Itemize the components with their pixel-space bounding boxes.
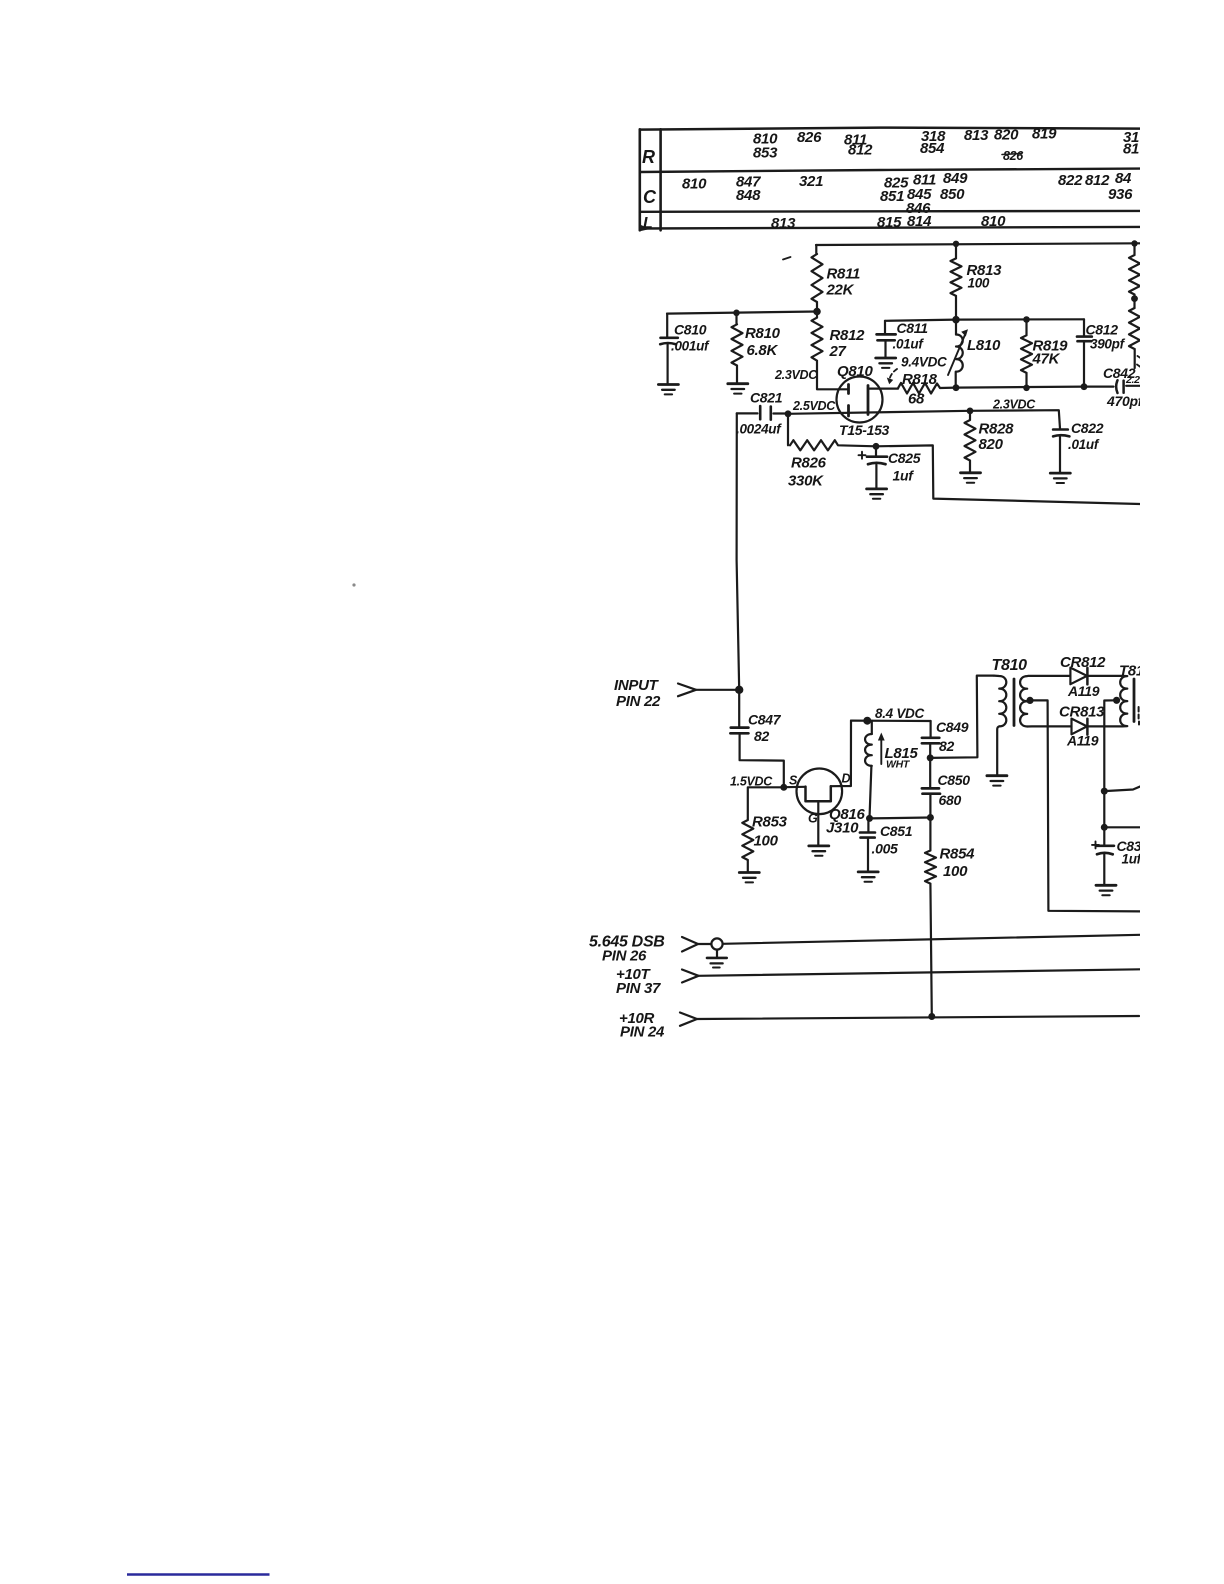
ground C825 [867, 489, 887, 499]
svg-text:22K: 22K [826, 282, 855, 299]
ground C851 [858, 872, 878, 882]
svg-text:PIN 24: PIN 24 [620, 1024, 665, 1041]
svg-text:T15-153: T15-153 [839, 422, 890, 438]
clipped marks right edge [1137, 356, 1141, 367]
svg-text:47K: 47K [1032, 351, 1061, 368]
svg-text:2.3VDC: 2.3VDC [774, 368, 818, 382]
svg-text:813: 813 [964, 127, 989, 144]
svg-text:R818: R818 [902, 371, 938, 388]
svg-text:936: 936 [1108, 186, 1133, 203]
svg-text:C847: C847 [748, 712, 782, 728]
svg-text:853: 853 [753, 145, 778, 162]
resistor R819 [1021, 320, 1068, 388]
node tank-bottom C812/C842 [1081, 383, 1088, 390]
node input/C847 [735, 686, 743, 694]
svg-text:G: G [808, 812, 818, 826]
transistor Q816 [784, 721, 866, 845]
capacitor C810 [660, 314, 710, 384]
svg-text:9.4VDC: 9.4VDC [901, 355, 947, 370]
label 9.4VDC with pointer [887, 355, 947, 385]
svg-text:27: 27 [829, 343, 847, 360]
capacitor C849 [922, 719, 969, 758]
svg-text:820: 820 [979, 436, 1004, 453]
diode CR812 [1060, 654, 1122, 699]
resistor R826 [788, 414, 876, 490]
wire C821 down to input node [737, 413, 740, 689]
svg-text:R811: R811 [827, 266, 861, 283]
svg-text:826: 826 [1003, 149, 1024, 163]
wire pin26 to terminal [698, 943, 711, 945]
svg-text:82: 82 [939, 738, 954, 754]
ground T810 primary [987, 776, 1007, 786]
node tank-top L810 [952, 316, 960, 324]
svg-text:PIN 26: PIN 26 [602, 948, 647, 965]
inductor L815 [865, 721, 918, 819]
node T810 secondary tap [1026, 697, 1033, 704]
node Q816 source [780, 784, 787, 791]
svg-text:812: 812 [848, 142, 873, 159]
footer blue line [127, 1573, 270, 1575]
svg-text:R812: R812 [830, 327, 866, 344]
node tank-bottom R819 [1023, 385, 1030, 392]
node tank-bottom L810 [953, 384, 960, 391]
svg-text:2.2: 2.2 [1125, 374, 1140, 386]
svg-text:851: 851 [880, 188, 904, 205]
table row C values [682, 170, 1133, 217]
capacitor C850 [922, 758, 970, 818]
svg-text:810: 810 [981, 213, 1006, 230]
svg-text:812: 812 [1085, 172, 1110, 189]
node T811 tap [1113, 697, 1120, 704]
svg-text:C: C [643, 187, 657, 207]
capacitor C822 [1053, 420, 1104, 472]
table row L values [771, 213, 1006, 232]
wire source row to C822 [970, 410, 1060, 428]
svg-text:WHT: WHT [886, 759, 911, 771]
capacitor C825 [859, 446, 921, 487]
ground R828 [961, 473, 981, 483]
node rail-R813 [953, 241, 959, 247]
resistor chain upper (right edge) [1129, 244, 1140, 309]
arrow input pin 22 [678, 684, 696, 697]
svg-text:1uf: 1uf [893, 468, 915, 484]
wire output stub lower [1104, 826, 1140, 828]
wire C851 node to C850 node [870, 816, 931, 819]
wire bias node to C810/R810 [667, 312, 817, 314]
transformer T810 [992, 657, 1072, 774]
ground C811 [876, 358, 896, 368]
svg-text:813: 813 [771, 215, 796, 232]
node 8.4VDC [863, 717, 871, 725]
svg-text:C810: C810 [674, 322, 707, 338]
svg-text:R: R [642, 147, 655, 167]
svg-text:822: 822 [1058, 172, 1083, 189]
capacitor C812 [1077, 319, 1126, 386]
node tank-top R819 [1023, 316, 1030, 323]
svg-text:81: 81 [1123, 141, 1139, 158]
svg-text:CR812: CR812 [1060, 654, 1106, 671]
svg-text:2.5VDC: 2.5VDC [792, 399, 836, 413]
svg-text:810: 810 [682, 176, 707, 193]
ground C810 [658, 385, 678, 395]
diode CR813 [1059, 704, 1122, 749]
resistor R812 [812, 312, 866, 390]
svg-text:.005: .005 [872, 841, 899, 857]
wire T811 tap down [1104, 700, 1116, 884]
svg-text:A119: A119 [1066, 733, 1099, 749]
svg-text:.0024uf: .0024uf [736, 422, 782, 437]
node C850/R854 [927, 814, 934, 821]
svg-text:100: 100 [943, 863, 968, 880]
wire top supply rail [816, 243, 1140, 245]
svg-text:470pf: 470pf [1106, 393, 1144, 409]
resistor R828 [965, 411, 1015, 472]
transformer T811 [1119, 663, 1144, 727]
svg-text:819: 819 [1032, 126, 1057, 143]
svg-text:C849: C849 [936, 719, 969, 735]
svg-text:814: 814 [907, 213, 932, 230]
svg-text:A119: A119 [1067, 683, 1100, 699]
wire +10T line [699, 969, 1141, 976]
svg-text:.01uf: .01uf [1068, 437, 1100, 452]
svg-text:100: 100 [968, 276, 990, 291]
svg-text:.001uf: .001uf [671, 339, 710, 354]
node R854/+10R [928, 1013, 935, 1020]
arrow pin 26 [682, 937, 698, 952]
svg-text:84: 84 [1115, 170, 1132, 187]
ground C822 [1050, 473, 1070, 483]
svg-text:6.8K: 6.8K [747, 342, 779, 359]
svg-text:PIN 37: PIN 37 [616, 980, 661, 997]
svg-text:J310: J310 [826, 820, 859, 837]
svg-text:Q810: Q810 [837, 363, 873, 380]
capacitor C811 [877, 320, 929, 357]
svg-text:C850: C850 [938, 772, 971, 788]
svg-text:C825: C825 [888, 450, 921, 466]
node R828 top [967, 408, 974, 415]
capacitor C83x (clipped) [1092, 838, 1143, 867]
svg-text:R854: R854 [940, 846, 976, 863]
svg-text:321: 321 [799, 173, 823, 190]
capacitor C842 [1084, 365, 1144, 409]
wire input to node [696, 689, 739, 691]
svg-text:L810: L810 [967, 337, 1001, 354]
node C849/C850 [927, 754, 934, 761]
ground C83x [1096, 885, 1116, 895]
node C821/R826 junction [785, 410, 792, 417]
terminal circle pin 26 [711, 938, 722, 949]
ground pin 26 terminal [707, 950, 727, 968]
svg-text:T810: T810 [992, 657, 1028, 674]
stray mark [783, 257, 791, 260]
label 5.645 DSB PIN 26 [589, 934, 665, 965]
svg-text:C811: C811 [897, 320, 929, 336]
svg-text:INPUT: INPUT [614, 677, 660, 694]
svg-text:848: 848 [736, 187, 761, 204]
svg-text:R826: R826 [791, 455, 827, 472]
label INPUT PIN 22 [614, 677, 661, 710]
svg-text:C851: C851 [880, 823, 913, 839]
node R810 top [733, 310, 740, 317]
svg-text:854: 854 [920, 140, 945, 157]
label +10T PIN 37 [616, 966, 661, 997]
node R826/C825 [873, 443, 880, 450]
wire +10R line [697, 1016, 1139, 1019]
node C851 junction [866, 815, 873, 822]
resistor R813 [951, 244, 1003, 320]
svg-text:D: D [842, 772, 851, 786]
svg-text:82: 82 [754, 728, 769, 744]
svg-text:8.4 VDC: 8.4 VDC [875, 706, 924, 721]
svg-text:826: 826 [797, 129, 822, 146]
svg-text:R828: R828 [979, 421, 1015, 438]
capacitor C847 [730, 690, 783, 786]
svg-text:C821: C821 [750, 390, 783, 406]
svg-text:330K: 330K [788, 473, 824, 490]
resistor R811 [812, 245, 861, 312]
wire tank bottom rail [956, 387, 1084, 388]
node output stub upper [1101, 788, 1108, 795]
svg-text:C812: C812 [1086, 322, 1119, 338]
ground Q816 gate [809, 846, 829, 856]
svg-text:R810: R810 [745, 325, 781, 342]
svg-text:850: 850 [940, 186, 965, 203]
wire Q810 source row (2.5VDC line) [788, 411, 970, 414]
wire C811 to tank top rail [885, 320, 956, 321]
wire C849 node to T810 primary [930, 676, 994, 758]
wire 8.4VDC row [851, 719, 931, 722]
svg-text:849: 849 [943, 170, 968, 187]
svg-text:C822: C822 [1071, 420, 1104, 436]
wire Q810 drain to R818 [868, 388, 898, 390]
transistor Q810 [837, 363, 890, 438]
capacitor C851 [860, 818, 913, 870]
resistor R810 [732, 313, 781, 383]
node right chain mid [1131, 295, 1138, 302]
resistor R853 [742, 787, 787, 871]
svg-text:100: 100 [754, 833, 779, 850]
svg-text:S: S [789, 774, 798, 788]
table row R values [753, 126, 1139, 164]
wire 5.645 DSB line [723, 935, 1140, 944]
parts table frame [638, 129, 641, 230]
wire C825 node to lower-right feed [876, 445, 1140, 504]
capacitor C821 [736, 390, 788, 437]
inductor L810 (variable) [948, 320, 1001, 388]
label +10R PIN 24 [619, 1010, 665, 1041]
svg-text:1uf: 1uf [1122, 852, 1143, 867]
svg-text:.01uf: .01uf [893, 337, 925, 352]
svg-text:L: L [643, 215, 652, 232]
ground R853 [739, 873, 759, 883]
svg-text:820: 820 [994, 127, 1019, 144]
node rail-right-chain [1131, 240, 1137, 246]
node R811/R812 junction [813, 308, 821, 316]
wire tank top rail [956, 318, 1084, 321]
resistor chain lower (right edge) [1129, 308, 1140, 368]
ground R810 [728, 384, 748, 394]
svg-text:390pf: 390pf [1090, 337, 1126, 352]
wire tap to output row [1030, 700, 1140, 911]
svg-text:PIN 22: PIN 22 [616, 693, 661, 710]
svg-text:CR813: CR813 [1059, 704, 1105, 721]
svg-text:R853: R853 [752, 814, 788, 831]
node output stub lower [1101, 824, 1108, 831]
wire output stub upper [1104, 787, 1140, 792]
stray dot [352, 583, 355, 586]
arrow pin 37 [682, 970, 699, 983]
resistor R818 [898, 371, 956, 408]
arrow pin 24 [680, 1013, 697, 1026]
svg-text:815: 815 [877, 214, 902, 231]
svg-text:68: 68 [908, 391, 925, 408]
resistor R854 [925, 818, 975, 1017]
svg-text:680: 680 [939, 792, 962, 808]
